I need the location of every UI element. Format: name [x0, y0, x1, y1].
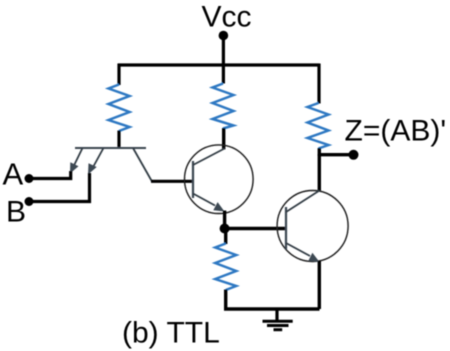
- transistor Q2 emitter: [193, 194, 215, 206]
- input A terminal dot: [25, 174, 34, 183]
- svg-text:A: A: [3, 157, 24, 192]
- wire Vcc to rail and R2 top: [222, 36, 225, 84]
- wire bottom rail: [224, 307, 320, 310]
- ground bar 3: [274, 328, 283, 331]
- ground stem: [275, 309, 278, 321]
- wire node to Q3 collector: [318, 154, 321, 191]
- transistor Q1 collector: [133, 148, 152, 182]
- svg-text:Z=(AB)': Z=(AB)': [345, 115, 447, 148]
- Vcc terminal dot: [219, 31, 229, 41]
- wire R4 to ground rail: [224, 290, 227, 310]
- ground bar 1: [263, 320, 293, 323]
- svg-text:(b) TTL: (b) TTL: [122, 317, 220, 350]
- transistor Q3 collector: [286, 191, 320, 213]
- wire rail to R3: [317, 64, 320, 104]
- wire R2 to Q2 collector: [222, 128, 225, 150]
- wire junction to R4: [224, 229, 227, 245]
- transistor Q2 base bar: [192, 161, 194, 198]
- resistor R1: [109, 85, 130, 132]
- wire Vcc rail: [118, 63, 320, 66]
- wire junction to Q3 base: [225, 227, 286, 230]
- transistor Q3 emitter: [286, 243, 310, 256]
- resistor R2: [213, 84, 234, 129]
- resistor R4: [215, 244, 236, 291]
- resistor R3: [308, 103, 329, 149]
- ground bar 2: [267, 324, 289, 327]
- wire R3 to output node: [318, 148, 321, 156]
- transistor Q1 emitter 2: [92, 148, 104, 169]
- transistor Q1 base bar: [75, 147, 146, 149]
- svg-text:Vcc: Vcc: [202, 1, 252, 34]
- wire input A: [29, 171, 71, 179]
- output terminal dot: [349, 150, 359, 160]
- wire Q2 emitter to junction: [223, 211, 226, 230]
- transistor Q2 circle: [185, 145, 254, 214]
- svg-text:B: B: [6, 195, 26, 228]
- junction node dot: [220, 224, 230, 234]
- input B terminal dot: [25, 197, 34, 206]
- wire rail to R1: [117, 64, 120, 86]
- transistor Q3 circle: [277, 191, 348, 262]
- wire R1 to Q1 base: [117, 131, 120, 149]
- transistor Q2 collector: [193, 149, 225, 166]
- wire output node horizontal: [318, 153, 353, 156]
- transistor Q1 emitter 1: [73, 148, 83, 168]
- wire Q1 collector to Q2 base: [151, 180, 193, 183]
- wire Q3 emitter to ground rail: [318, 261, 321, 309]
- wire input B: [29, 173, 90, 202]
- transistor Q3 base bar: [285, 207, 287, 249]
